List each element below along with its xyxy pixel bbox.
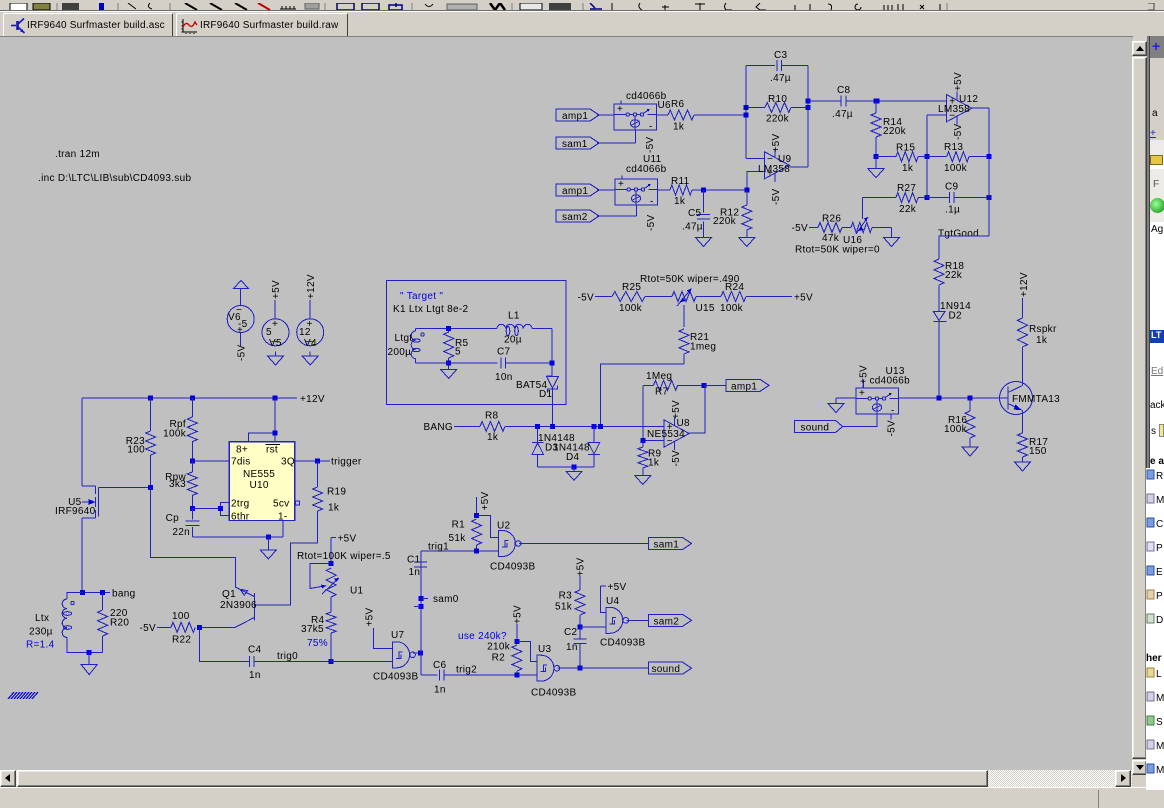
flag sam1 to U6 control <box>556 137 599 149</box>
junction rail Rpf <box>190 396 195 401</box>
capacitor C3 <box>746 65 775 67</box>
voltage source V5 <box>274 300 276 319</box>
wire trig1 <box>421 550 498 552</box>
svg-text:Q1: Q1 <box>222 589 236 600</box>
svg-text:5: 5 <box>266 327 272 338</box>
resistor R7 1Meg <box>643 384 654 386</box>
capacitor C4 <box>248 656 250 667</box>
resistor R12 <box>746 190 748 205</box>
resistor R4 <box>330 597 332 612</box>
resistor R3 <box>575 590 585 615</box>
svg-text:R: R <box>1156 471 1163 482</box>
svg-text:R=1.4: R=1.4 <box>26 640 55 651</box>
wire R1 hook <box>477 515 499 537</box>
svg-text:100: 100 <box>127 445 145 456</box>
svg-text:trigger: trigger <box>331 457 362 468</box>
wire U13 gnd <box>836 397 856 399</box>
wire U12 out vertical <box>988 108 990 236</box>
wire U8 out up <box>690 385 705 433</box>
svg-text:75%: 75% <box>307 638 328 649</box>
junction rst <box>273 431 278 436</box>
resistor R1 <box>472 519 482 545</box>
junction C5 tap <box>701 188 706 193</box>
svg-text:C: C <box>1156 519 1163 530</box>
svg-text:R6: R6 <box>671 99 685 110</box>
svg-text:7dis: 7dis <box>231 457 251 468</box>
svg-text:-5V: -5V <box>645 137 656 153</box>
svg-text:37k5: 37k5 <box>301 624 324 635</box>
flag sam2 to U11 control <box>556 210 599 222</box>
artifact hatch <box>8 692 38 699</box>
junction R9 top <box>640 438 645 443</box>
svg-text:220k: 220k <box>883 126 907 137</box>
svg-text:100k: 100k <box>720 303 744 314</box>
wire +5V hook U4 <box>601 586 606 613</box>
junction R2 bottom <box>514 672 519 677</box>
svg-text:6thr: 6thr <box>231 512 250 523</box>
svg-text:sam1: sam1 <box>654 540 680 551</box>
diode D1 BAT54 <box>547 377 559 389</box>
op-amp U8 NE5534 <box>664 420 689 447</box>
junction rail NE555 <box>273 396 278 401</box>
svg-text:-: - <box>891 406 895 417</box>
junction R20 top <box>100 590 105 595</box>
svg-text:CD4093B: CD4093B <box>490 562 535 573</box>
junction trigger <box>315 458 320 463</box>
svg-text:CD4093B: CD4093B <box>373 672 418 683</box>
svg-text:+12V: +12V <box>306 274 317 299</box>
wire U13 output <box>899 397 1008 399</box>
timer U10 NE555 <box>229 442 295 521</box>
svg-text:22k: 22k <box>899 204 917 215</box>
svg-text:5cv: 5cv <box>273 499 289 510</box>
svg-text:amp1: amp1 <box>562 111 588 122</box>
svg-text:+: + <box>237 325 243 336</box>
svg-text:U1: U1 <box>350 586 364 597</box>
junction D2 bottom <box>937 396 942 401</box>
wire Q1 collector <box>200 626 236 628</box>
junction R13 right <box>987 154 992 159</box>
voltage source V6 <box>227 306 254 333</box>
svg-text:+5V: +5V <box>338 534 357 545</box>
svg-text:+5V: +5V <box>513 605 524 624</box>
resistor R11 <box>658 189 671 191</box>
svg-text:220k: 220k <box>713 216 737 227</box>
svg-text:sam1: sam1 <box>562 139 588 150</box>
resistor R24 <box>696 296 721 298</box>
nand gate U4 CD4093B <box>605 607 623 633</box>
junction C2 bottom <box>578 666 583 671</box>
svg-text:.47µ: .47µ <box>682 222 703 233</box>
svg-text:+5V: +5V <box>480 491 491 510</box>
resistor R27 <box>896 193 918 203</box>
junction R12 node <box>744 188 749 193</box>
wire R22 down trig0 <box>200 627 250 661</box>
ground below V5 <box>275 352 277 357</box>
wire -5V to R25 <box>595 296 612 298</box>
svg-text:U10: U10 <box>250 480 269 491</box>
flag amp1 input U11 <box>556 184 599 196</box>
svg-text:C4: C4 <box>248 645 262 656</box>
svg-text:8+: 8+ <box>236 445 248 456</box>
svg-text:D: D <box>1156 615 1163 626</box>
svg-text:trig2: trig2 <box>456 665 477 676</box>
svg-text:Ltx: Ltx <box>35 613 49 624</box>
svg-text:1n: 1n <box>566 642 578 653</box>
wire U5 source <box>81 398 83 486</box>
net label -5V below U13 <box>890 414 892 420</box>
wire trig2 to U3 <box>517 674 537 676</box>
junction R3 bottom <box>578 625 583 630</box>
svg-text:C7: C7 <box>497 347 511 358</box>
svg-text:E: E <box>1156 567 1163 578</box>
svg-text:CD4093B: CD4093B <box>600 638 645 649</box>
junction rail R23 <box>148 396 153 401</box>
svg-text:R24: R24 <box>725 282 744 293</box>
analog switch U6 cd4066b <box>614 104 657 130</box>
wire rst hook <box>248 433 275 441</box>
svg-text:+5V: +5V <box>859 365 870 384</box>
wire U16 right to ground <box>872 227 892 229</box>
flag sound output <box>649 662 692 674</box>
resistor R17 <box>1018 433 1028 457</box>
svg-text:trig1: trig1 <box>428 542 449 553</box>
junction R16 top <box>968 396 973 401</box>
junction dis node <box>190 459 195 464</box>
transistor Q1 2N3906 <box>253 593 255 620</box>
svg-text:NE555: NE555 <box>243 469 275 480</box>
svg-text:amp1: amp1 <box>562 186 588 197</box>
junction gate node <box>148 485 153 490</box>
flag amp1 input U6 <box>556 109 599 121</box>
wire diode bottoms <box>538 466 594 468</box>
wire R7 left vertical <box>642 385 644 440</box>
resistor R21 <box>679 329 689 354</box>
ground below diodes <box>573 467 575 472</box>
svg-text:U8: U8 <box>677 418 691 429</box>
svg-text:TgtGood: TgtGood <box>938 229 979 240</box>
svg-text:+: + <box>618 179 624 190</box>
wire U5 gate <box>99 486 151 488</box>
ground below Ltx <box>88 653 90 665</box>
transistor Q FMMTA13 <box>1000 382 1033 415</box>
resistor R22 <box>157 626 171 628</box>
svg-text:R10: R10 <box>768 94 787 105</box>
background window sliver at right edge <box>1150 36 1164 807</box>
svg-text:.tran 12m: .tran 12m <box>55 149 100 160</box>
capacitor C1 plates <box>414 561 427 563</box>
junction R10 left <box>744 105 749 110</box>
analog switch U11 cd4066b <box>615 179 658 205</box>
junction D3 tap <box>535 424 540 429</box>
wire output vertical <box>807 66 809 167</box>
svg-text:C5: C5 <box>688 208 702 219</box>
net label +5V at U1 <box>331 536 336 538</box>
vertical scrollbar <box>1132 41 1147 776</box>
svg-text:U15: U15 <box>696 303 715 314</box>
svg-text:+5V: +5V <box>575 557 586 576</box>
svg-text:10n: 10n <box>495 372 513 383</box>
svg-text:U2: U2 <box>497 521 511 532</box>
svg-text:3Q: 3Q <box>281 457 295 468</box>
svg-text:rst: rst <box>266 445 278 456</box>
junction R5 bottom <box>446 361 451 366</box>
svg-text:100: 100 <box>172 611 190 622</box>
wire target right vert <box>551 329 553 377</box>
svg-text:M: M <box>1156 765 1164 776</box>
wire trg-thr bracket <box>192 508 220 510</box>
resistor R9 <box>642 441 644 447</box>
svg-text:L1: L1 <box>508 311 520 322</box>
svg-text:1n: 1n <box>409 567 421 578</box>
nand gate U2 CD4093B <box>498 531 516 557</box>
wire R23 node down <box>151 487 236 587</box>
wire +12V rail <box>82 397 297 399</box>
resistor R26 <box>809 227 818 229</box>
svg-text:100k: 100k <box>944 424 968 435</box>
svg-text:5: 5 <box>455 347 461 358</box>
ground below V4 <box>309 352 311 357</box>
ground below R5 <box>448 365 450 370</box>
status bar <box>0 787 1148 807</box>
svg-text:cd4066b: cd4066b <box>870 376 911 387</box>
ground below R17 <box>1022 460 1024 462</box>
ground below NE555 <box>267 537 269 550</box>
svg-text:3k3: 3k3 <box>169 479 186 490</box>
resistor R5 <box>444 332 454 358</box>
svg-text:R2: R2 <box>492 653 506 664</box>
junction C7 right <box>550 361 555 366</box>
svg-text:R15: R15 <box>896 143 915 154</box>
inductor Ltgt <box>415 329 417 331</box>
svg-text:cd4066b: cd4066b <box>626 164 667 175</box>
svg-text:+12V: +12V <box>300 394 325 405</box>
wire C3 left vertical <box>745 66 747 159</box>
svg-text:+5V: +5V <box>271 280 282 299</box>
svg-text:230µ: 230µ <box>29 627 53 638</box>
svg-text:C2: C2 <box>564 627 578 638</box>
svg-text:-5V: -5V <box>237 345 248 361</box>
capacitor C5 <box>703 190 705 212</box>
junction R21L tap <box>598 424 603 429</box>
resistor R13 <box>927 156 947 158</box>
capacitor C2 <box>574 638 587 640</box>
wire gnd rail NE555 <box>192 536 282 538</box>
junction D1 tap <box>550 424 555 429</box>
svg-text:47k: 47k <box>822 233 840 244</box>
wire target bottom <box>416 362 498 364</box>
svg-text:51k: 51k <box>448 533 466 544</box>
wire U16 wiper to R27 <box>861 198 863 219</box>
wire U12 inv vertical <box>926 115 928 198</box>
junction R1 top <box>474 513 479 518</box>
op-amp U12 LM358 <box>947 95 972 122</box>
svg-text:sound: sound <box>652 664 681 675</box>
junction U7 out <box>418 651 423 656</box>
svg-text:1k: 1k <box>487 432 499 443</box>
svg-text:2N3906: 2N3906 <box>220 600 257 611</box>
target subcircuit box <box>386 281 566 405</box>
diode D2 1N914 <box>933 312 945 321</box>
analog switch U13 cd4066b <box>856 388 899 414</box>
svg-text:-5V: -5V <box>887 420 898 436</box>
svg-text:1k: 1k <box>674 196 686 207</box>
svg-text:LM358: LM358 <box>758 164 790 175</box>
junction R5 top <box>446 326 451 331</box>
wire R3 to U4 <box>580 626 606 628</box>
svg-text:R8: R8 <box>485 411 499 422</box>
svg-text:IRF9640: IRF9640 <box>55 506 96 517</box>
wire U5 drain <box>81 518 83 593</box>
net label +5V at U4 <box>601 585 606 587</box>
svg-text:LM358: LM358 <box>938 104 970 115</box>
svg-text:1Meg: 1Meg <box>646 371 672 382</box>
svg-text:Cp: Cp <box>166 513 180 524</box>
wire R19 to Q1 base <box>254 511 317 605</box>
svg-text:V5: V5 <box>269 338 282 349</box>
op-amp U9 LM358 <box>765 152 790 179</box>
ground below R16 <box>969 445 971 447</box>
resistor R20 <box>102 593 104 610</box>
svg-text:100k: 100k <box>163 429 187 440</box>
wire sam0 vertical <box>420 551 422 675</box>
svg-text:CD4093B: CD4093B <box>531 688 576 699</box>
svg-text:U4: U4 <box>606 596 620 607</box>
svg-text:R7: R7 <box>655 387 669 398</box>
capacitor C6 <box>421 674 437 676</box>
svg-text:+: + <box>272 319 278 330</box>
capacitor C8 <box>808 100 841 102</box>
svg-text:1k: 1k <box>902 163 914 174</box>
svg-text:-5V: -5V <box>671 450 682 466</box>
svg-text:Rtot=100K wiper=.5: Rtot=100K wiper=.5 <box>297 551 391 562</box>
voltage source V4 <box>309 300 311 319</box>
flag sam1 output <box>649 538 692 550</box>
junction sam0 <box>419 596 424 601</box>
svg-text:+12V: +12V <box>1019 272 1030 297</box>
svg-text:C3: C3 <box>774 50 788 61</box>
svg-text:22k: 22k <box>945 270 963 281</box>
svg-text:R22: R22 <box>172 635 191 646</box>
svg-text:+: + <box>617 104 623 115</box>
svg-text:C6: C6 <box>433 660 447 671</box>
svg-text:C8: C8 <box>837 85 851 96</box>
resistor R10 <box>746 107 765 109</box>
svg-text:D4: D4 <box>566 452 580 463</box>
svg-text:U3: U3 <box>538 644 552 655</box>
resistor R25 <box>612 292 645 302</box>
resistor Rspkr <box>1022 298 1024 318</box>
svg-text:.inc D:\LTC\LIB\sub\CD4093.sub: .inc D:\LTC\LIB\sub\CD4093.sub <box>38 173 191 184</box>
resistor R19 <box>317 461 319 487</box>
svg-text:-5V: -5V <box>792 223 808 234</box>
svg-text:M: M <box>1156 741 1164 752</box>
resistor R16 <box>969 398 971 411</box>
resistor R8 <box>454 425 480 427</box>
svg-text:use 240k?: use 240k? <box>458 631 507 642</box>
svg-text:M: M <box>1156 495 1164 506</box>
svg-text:R26: R26 <box>822 214 841 225</box>
svg-text:R1: R1 <box>452 520 466 531</box>
junction U1 top <box>329 561 334 566</box>
junction R14 bottom <box>874 154 879 159</box>
resistor R18 <box>934 259 944 285</box>
svg-text:210k: 210k <box>487 642 511 653</box>
svg-text:1k: 1k <box>648 458 660 469</box>
svg-text:sound: sound <box>801 423 830 434</box>
svg-text:P: P <box>1156 591 1163 602</box>
ground below R12 <box>746 233 748 238</box>
svg-text:U6: U6 <box>658 100 672 111</box>
svg-text:-5V: -5V <box>953 124 964 140</box>
junction trg node <box>190 506 195 511</box>
svg-text:-5V: -5V <box>578 293 594 304</box>
svg-text:20µ: 20µ <box>504 335 522 346</box>
junction R22 <box>197 625 202 630</box>
wire Q1 emitter <box>234 557 236 587</box>
svg-text:M: M <box>1156 693 1164 704</box>
svg-text:2trg: 2trg <box>231 499 249 510</box>
svg-text:sam0: sam0 <box>433 594 459 605</box>
resistor Rpf <box>191 398 193 417</box>
svg-text:sam2: sam2 <box>562 212 588 223</box>
svg-text:100k: 100k <box>619 303 643 314</box>
horizontal scrollbar <box>0 770 1132 787</box>
resistor R15 <box>876 156 896 158</box>
svg-text:+: + <box>859 388 865 399</box>
wire R21 to bang row <box>601 364 684 426</box>
svg-text:+5V: +5V <box>608 582 627 593</box>
junction C9 right <box>987 195 992 200</box>
mosfet U5 IRF9640 <box>82 485 95 487</box>
svg-text:.1µ: .1µ <box>945 205 960 216</box>
svg-text:150: 150 <box>1029 446 1047 457</box>
junction Ltx gnd <box>87 650 92 655</box>
svg-text:+5V: +5V <box>953 72 964 91</box>
capacitor Cp <box>191 509 193 520</box>
svg-text:FMMTA13: FMMTA13 <box>1012 394 1060 405</box>
svg-text:51k: 51k <box>555 602 573 613</box>
svg-text:1-: 1- <box>278 512 288 523</box>
svg-text:100k: 100k <box>944 163 968 174</box>
resistor R6 <box>657 114 669 116</box>
svg-text:-5V: -5V <box>771 189 782 205</box>
resistor R14 <box>875 101 877 113</box>
svg-text:P: P <box>1156 543 1163 554</box>
svg-text:bang: bang <box>112 589 135 600</box>
svg-text:R11: R11 <box>671 176 690 187</box>
svg-text:.47µ: .47µ <box>770 73 791 84</box>
svg-text:-: - <box>650 197 654 208</box>
potentiometer U16 <box>851 223 872 233</box>
wire target top right <box>532 328 552 330</box>
tab bar <box>0 10 1164 36</box>
junction R2 top <box>514 639 519 644</box>
svg-text:1k: 1k <box>328 503 340 514</box>
junction bracket <box>218 506 223 511</box>
capacitor C7 <box>500 358 502 369</box>
ground below C5 <box>703 233 705 238</box>
svg-text:D1: D1 <box>539 389 553 400</box>
ground below R9 <box>642 471 644 476</box>
svg-text:sam2: sam2 <box>654 616 680 627</box>
wire +5V to U1 <box>330 537 332 563</box>
svg-text:R27: R27 <box>897 183 916 194</box>
wire +5V to U7 <box>373 628 392 649</box>
junction trig1 <box>474 549 479 554</box>
svg-text:D2: D2 <box>949 311 963 322</box>
junction Ltx top <box>80 590 85 595</box>
